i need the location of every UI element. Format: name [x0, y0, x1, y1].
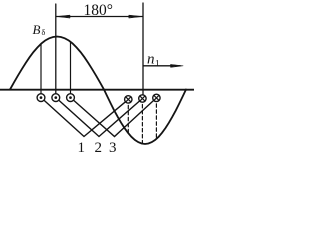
right pole-pitch boundary line [142, 3, 144, 95]
conductor 2 (circle with dot, current out of page) [52, 94, 60, 102]
n1 rotation direction arrow [144, 64, 183, 67]
conductor 3' (circle with cross, current into page) [153, 94, 160, 101]
coil 3 connection wire (conductor 3 to 3') [71, 98, 157, 137]
180-degree dimension line with arrowheads [57, 15, 143, 18]
horizontal axis [0, 89, 194, 91]
label B-delta (flux density) [33, 22, 46, 37]
label n1 (synchronous speed) [147, 52, 160, 70]
svg-text:180°: 180° [84, 2, 113, 19]
svg-text:δ: δ [42, 28, 46, 37]
coil 1 connection wire (conductor 1 to 1') [41, 98, 128, 137]
conductor 3 position line [70, 42, 72, 94]
svg-text:1: 1 [78, 140, 86, 154]
conductor 1' (circle with cross, current into page) [125, 96, 132, 103]
dashed projection line from conductor 2' to wave [141, 99, 143, 144]
conductor 2' (circle with cross, current into page) [139, 95, 146, 102]
dashed projection line from conductor 1' to wave [127, 99, 129, 133]
conductor 1 (circle with dot, current out of page) [37, 94, 45, 102]
svg-text:2: 2 [95, 140, 103, 154]
svg-text:n: n [147, 52, 155, 68]
flux density wave curve [10, 37, 186, 145]
conductor 1 position line [40, 44, 42, 94]
coil 2 connection wire (conductor 2 to 2') [56, 98, 143, 137]
conductor 3 (circle with dot, current out of page) [67, 94, 75, 102]
dashed projection line from conductor 3' to wave [155, 98, 157, 139]
conductor 2 position line / left pole-pitch boundary [55, 4, 57, 95]
svg-text:1: 1 [155, 60, 160, 70]
svg-text:B: B [33, 22, 41, 37]
svg-text:3: 3 [109, 140, 117, 154]
